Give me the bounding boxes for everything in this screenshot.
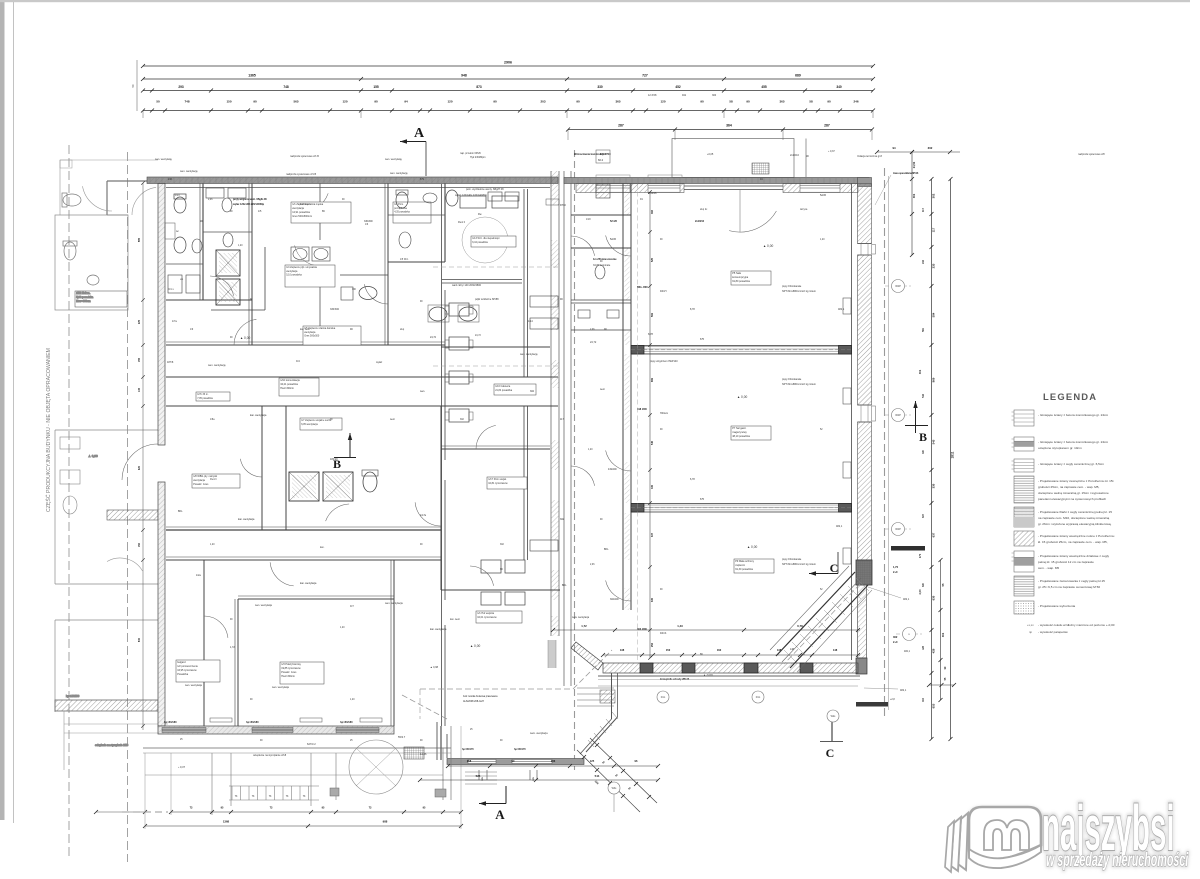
svg-text:180/20: 180/20 [330,458,338,461]
partition companion lines [248,184,250,346]
top wall inner line [166,187,550,189]
svg-text:W3s: W3s [612,787,618,790]
svg-text:belgard: belgard [177,661,186,664]
svg-text:90: 90 [493,100,497,104]
top wall band left building [147,177,558,184]
cafeteria west wall double [441,184,443,726]
left bottom vertical connectors [144,753,146,829]
svg-text:hp=80/180: hp=80/180 [340,720,353,724]
svg-text:żwir. kostka brukowa prasowana: żwir. kostka brukowa prasowana [463,695,498,698]
right wall window sill bumps [872,245,876,255]
svg-text:1/17a: 1/17a [420,514,427,517]
svg-text:830: 830 [138,637,141,642]
top dimension chain [143,65,873,67]
dining tables [449,303,469,316]
hall beam 2 [631,504,852,513]
svg-text:1,72: 1,72 [581,624,587,628]
row3 labels [176,660,220,682]
svg-text:365: 365 [779,100,784,104]
wc room 390-445 fixtures [396,192,408,208]
vestibule steps south [577,687,614,689]
svg-text:52 /26: 52 /26 [610,220,618,223]
svg-text:330: 330 [651,484,654,489]
svg-text:pójki wzdłużne 6P/88: pójki wzdłużne 6P/88 [475,298,499,301]
svg-text:2,06: 2,06 [590,329,595,331]
svg-text:482,1: 482,1 [904,650,911,653]
svg-text:55/3.7: 55/3.7 [398,735,406,739]
svg-text:584: 584 [932,312,936,317]
dashed walkway outline [420,688,573,690]
svg-text:418 /200: 418 /200 [637,408,647,411]
svg-text:wen. wentylację: wen. wentylację [520,353,538,356]
svg-text:A: A [495,807,505,822]
fragment small window top [60,160,72,168]
svg-text:1,20: 1,20 [238,245,243,247]
svg-text:gr. 26cm i wyłożone wyprawą e: gr. 26cm i wyłożone wyprawą elewacyjną k… [1038,522,1112,526]
svg-text:w sprzedaży nieruchomości: w sprzedaży nieruchomości [1046,850,1189,871]
svg-text:1/8a: 1/8a [210,419,215,421]
right wall window gaps [858,243,872,245]
fragment terrace lines [64,723,168,725]
fragment wc room outline [55,215,128,310]
svg-text:24,72: 24,72 [475,335,481,337]
SW diagonal steps band [586,717,618,752]
svg-text:302: 302 [932,193,936,198]
svg-text:1/13: 1/13 [175,195,180,197]
window sill marks top wall [596,175,630,178]
svg-text:620: 620 [138,465,141,470]
svg-text:330: 330 [597,85,603,89]
svg-text:428: 428 [932,648,936,653]
expansion joint dash line [574,150,576,770]
svg-text:1,20: 1,20 [588,449,593,451]
svg-text:▲ 0,00: ▲ 0,00 [240,336,250,340]
bottom left small chain [96,811,145,813]
dark text bar bottom right [856,702,888,707]
fragment sink [87,275,99,285]
wc toilet mid [359,287,377,300]
legend item band [1014,551,1034,572]
legend item dots [1014,601,1034,614]
svg-text:Posadz. Gres: Posadz. Gres [193,483,209,486]
fragment entry door arcs [83,186,113,211]
svg-text:24,52: 24,52 [912,161,916,168]
outside stair band west [107,510,158,520]
svg-text:302: 302 [530,390,535,393]
row2 toilet [363,472,377,492]
svg-text:2,06: 2,06 [208,199,213,201]
legend item hfine [1014,476,1034,503]
svg-text:1/7 Zaplecze socjalne suche: 1/7 Zaplecze socjalne suche [301,419,332,422]
svg-text:P9 Mała ochrony: P9 Mała ochrony [735,560,755,563]
svg-text:1/12 blok m.: 1/12 blok m. [76,291,90,295]
svg-text:162: 162 [717,648,722,652]
short chain y685 [929,684,954,686]
svg-text:▲ 0,00: ▲ 0,00 [88,454,98,458]
svg-text:- Istniejące ściany z cegły ce: - Istniejące ściany z cegły ceramicznej … [1038,462,1104,466]
row2 partitions [261,406,263,530]
east wing door arcs [476,425,496,449]
svg-text:302: 302 [928,146,933,150]
svg-text:330/300: 330/300 [364,220,373,223]
svg-text:627/3.2: 627/3.2 [307,742,316,746]
svg-text:D1n: D1n [661,696,666,699]
svg-text:D1n: D1n [756,696,761,699]
svg-text:ocieplenie na styropianie 2/18: ocieplenie na styropianie 2/18 [95,744,129,747]
svg-text:60.2: 60.2 [598,158,604,162]
svg-text:NPTi 8mx880mm/szt kg mitem: NPTi 8mx880mm/szt kg mitem [782,290,816,293]
svg-text:689: 689 [795,74,801,78]
svg-text:90: 90 [746,100,750,104]
bottom wall band with windows [158,726,394,734]
svg-text:H40em: H40em [660,412,668,415]
radiator marks hall right wall [843,298,851,314]
fragment mid fixtures [60,437,80,449]
svg-text:wen. wentylację: wen. wentylację [155,158,173,161]
row2 mid label [300,418,342,430]
svg-text:24,72: 24,72 [430,336,437,339]
svg-text:1811: 1811 [951,451,955,458]
terrace step ticks row [231,786,233,800]
beam dashed centrelines [631,349,851,351]
svg-text:ALS/2008 208-GLH: ALS/2008 208-GLH [463,700,484,703]
east wall band of left building (to expansion joint) [550,171,552,636]
svg-text:grubości 25cm, na zaprawie cem: grubości 25cm, na zaprawie cem. - wap. M… [1038,485,1100,489]
bottom chain y630 [553,629,860,631]
svg-text:wentylacja: wentylacja [193,479,205,482]
svg-text:655: 655 [932,703,936,708]
svg-text:525: 525 [651,257,654,262]
leader labels 482,1 [868,587,901,598]
svg-text:12 /158: 12 /158 [648,94,657,97]
svg-text:233: 233 [551,759,556,763]
svg-text:452: 452 [675,85,681,89]
svg-text:24,72: 24,72 [590,341,597,344]
svg-text:DKA: DKA [600,152,606,156]
svg-text:117: 117 [560,418,564,421]
svg-text:- Istniejące ściany z betonu k: - Istniejące ściany z betonu komórkowego… [1038,413,1109,417]
svg-text:21,84 posadzka: 21,84 posadzka [495,389,513,392]
svg-text:porządkowe: porządkowe [394,207,408,210]
row3 door arcs [204,616,228,638]
ramp dashed centre [784,584,860,664]
row1 label box 2 [393,202,431,223]
svg-text:6,78: 6,78 [797,624,803,628]
hall beam 1 [631,346,852,355]
svg-text:90: 90 [576,100,580,104]
svg-text:kan. went: kan. went [450,618,460,621]
svg-text:2x10/16: 2x10/16 [790,154,800,157]
east rooms labels [494,384,536,395]
svg-text:52/26: 52/26 [820,194,827,197]
svg-text:- Projektowane zamurowania z c: - Projektowane zamurowania z cegły pełne… [1038,579,1105,583]
svg-text:▵ 0,37: ▵ 0,37 [828,150,835,153]
diagonal ramp SE [770,566,872,672]
svg-text:879: 879 [420,178,425,181]
crosshatch grille block [752,163,769,174]
row1 toilets [174,197,186,213]
mid bottom chains [448,765,658,767]
east wing bottom wall [447,759,584,765]
svg-text:155: 155 [138,357,141,362]
svg-text:1m 2Pomieszczenie: 1m 2Pomieszczenie [593,258,617,261]
svg-text:252: 252 [651,642,654,647]
svg-text:pręty Fibrokanale: pręty Fibrokanale [782,558,802,561]
svg-text:150: 150 [226,100,231,104]
left vertical dim chain [142,183,144,730]
corridor partitions lower [571,299,631,301]
dashed access lines [433,266,560,268]
svg-text:B: B [919,430,927,444]
west wall [158,184,165,446]
svg-text:287: 287 [618,124,624,128]
svg-text:W2s: W2s [831,715,837,718]
svg-text:10,81 tymczasow: 10,81 tymczasow [488,482,508,485]
hall corridor east wall [622,184,624,611]
corridor door arcs [606,235,631,256]
corridor walls [166,376,558,378]
svg-text:ocieplone styropianem gr. 10cm: ocieplone styropianem gr. 10cm [1038,446,1082,450]
svg-text:- Projektowane ściany wewnętrz: - Projektowane ściany wewnętrzne działow… [1038,554,1109,558]
svg-text:302 /200: 302 /200 [637,628,647,631]
svg-text:300: 300 [712,94,717,97]
svg-text:D41H: D41H [660,290,667,293]
cafeteria east wall double x524 [523,189,525,377]
svg-text:1/3 Pokój biurowy: 1/3 Pokój biurowy [281,663,301,666]
hall bottom wall hatched band [603,663,858,673]
svg-text:6,44 posadzka: 6,44 posadzka [472,241,488,244]
NW diagonal wall to west [571,642,603,670]
svg-text:120: 120 [660,100,665,104]
row2 shower squares pair [289,472,319,501]
legend item zig [1014,507,1034,527]
svg-text:wen. wentylacja: wen. wentylacja [185,684,203,687]
legend item diag [1014,531,1034,546]
svg-text:went: went [390,418,395,421]
svg-text:- Projektowane filarki z cegły: - Projektowane filarki z cegły ceramiczn… [1038,510,1112,514]
left terrace outline [143,747,451,749]
svg-text:wen. wentylację: wen. wentylację [390,172,408,175]
svg-text:pręty Fibrokanale: pręty Fibrokanale [782,378,802,381]
svg-text:5,06 posadzka: 5,06 posadzka [76,295,93,299]
right benches [530,296,558,307]
SE end block [856,658,867,674]
svg-text:145: 145 [138,387,141,392]
svg-text:90: 90 [374,100,378,104]
svg-text:- wysokość parapetów: - wysokość parapetów [1038,630,1069,634]
svg-text:34,87 terminale: 34,87 terminale [593,264,611,267]
svg-text:873: 873 [476,85,482,89]
svg-text:203: 203 [540,100,545,104]
svg-text:637: 637 [932,532,936,537]
svg-text:wen. wentylacja: wen. wentylacja [255,604,273,607]
svg-text:302: 302 [560,518,565,521]
label boxes 1/4 1/5 [285,265,335,287]
svg-text:BKL: BKL [604,548,609,551]
svg-text:1/2 pomieszczenie: 1/2 pomieszczenie [177,665,198,668]
svg-text:8,78: 8,78 [690,308,695,311]
svg-text:7,05 posadzka: 7,05 posadzka [197,397,213,400]
hall top wall hatch band [576,184,684,193]
svg-text:kan. wentylacja: kan. wentylacja [300,582,317,585]
svg-text:pręty wzgórzem HEP140: pręty wzgórzem HEP140 [650,360,678,363]
svg-text:+x,xx: +x,xx [1027,623,1034,627]
walkway below bottom wall [598,685,858,687]
svg-text:302/200: 302/200 [610,598,619,601]
canopy rectangle above entrance [672,139,794,178]
svg-text:138: 138 [777,648,782,652]
svg-text:DT10: DT10 [560,204,567,207]
svg-text:748: 748 [283,85,289,89]
svg-text:kl. 15 grubości 25cm, na zapra: kl. 15 grubości 25cm, na zaprawie cem. -… [1038,540,1108,544]
watermark logo subtitle [1046,850,1189,871]
svg-text:293: 293 [178,85,184,89]
svg-text:- Projektowane ściany zewnętrz: - Projektowane ściany zewnętrzne z Porot… [1038,479,1114,483]
bottom entrance steps diagonal dim chains [590,738,657,803]
svg-text:1/2a: 1/2a [196,574,201,577]
inner frame line [13,2,15,823]
svg-text:90: 90 [700,100,704,104]
svg-text:Dw1 h: Dw1 h [210,478,217,481]
svg-text:hp=80/170: hp=80/170 [514,748,526,751]
svg-text:187/8: 187/8 [167,361,174,364]
svg-text:wentylacja: wentylacja [286,270,298,273]
fragment bottom wall band [55,700,158,711]
svg-text:34,21 posadzka: 34,21 posadzka [280,383,298,386]
svg-text:W2P: W2P [895,284,901,288]
DKA box [596,150,610,163]
svg-text:konsumpcyjna: konsumpcyjna [732,276,749,279]
svg-text:340: 340 [836,85,842,89]
svg-text:wen.: wen. [420,390,425,393]
row1 sinks pair [429,307,447,321]
svg-text:cem. - wap. M5: cem. - wap. M5 [1038,566,1059,570]
svg-text:NPTi 8mx880mm/szt kg mitem: NPTi 8mx880mm/szt kg mitem [782,563,816,566]
svg-text:330: 330 [932,483,936,488]
svg-text:Dr1 s: Dr1 s [168,288,175,291]
axis bubble circles right [885,285,911,287]
svg-text:kan. wentylacja: kan. wentylacja [238,518,255,521]
top wall ticks texture [149,177,151,184]
svg-text:12,91 posadzka: 12,91 posadzka [292,211,310,214]
left bottom chains [171,811,461,813]
wc sink row [488,192,502,201]
legend item ladder [1014,410,1034,426]
gray vertical band left of walk [548,640,556,668]
svg-text:wen. wentylację: wen. wentylację [208,364,226,367]
svg-text:- wysokość cokołu wzdłużny: - wysokość cokołu wzdłużny mierzone od p… [1038,623,1115,627]
svg-text:CZĘŚĆ PRODUKCYJNA BUDYNKU - NI: CZĘŚĆ PRODUKCYJNA BUDYNKU - NIE OBJĘTA O… [44,348,52,512]
svg-text:LEGENDA: LEGENDA [1043,391,1097,402]
svg-text:330/300: 330/300 [330,308,340,311]
room 450-520 top fixtures [492,196,518,208]
svg-text:90: 90 [253,100,257,104]
svg-text:365: 365 [615,100,620,104]
svg-text:8,78: 8,78 [648,333,653,336]
svg-text:630: 630 [932,595,936,600]
svg-text:pom. wydzielone wenty. 6Bg/H 0: pom. wydzielone wenty. 6Bg/H 08 [466,188,504,191]
svg-text:2,06: 2,06 [590,564,595,566]
svg-text:hp=140/100: hp=140/100 [66,695,80,698]
svg-text:727: 727 [642,74,648,78]
right top corner ticks [877,151,960,153]
svg-text:1/7b 33 m.: 1/7b 33 m. [197,393,209,396]
secondary top dimension chain [568,129,872,131]
row2 door arcs [240,459,262,477]
svg-text:A: A [414,126,425,141]
svg-text:1/13 W.C. dla niepełnospr.: 1/13 W.C. dla niepełnospr. [472,237,500,240]
svg-text:419/200: 419/200 [608,468,617,471]
right lower chain [940,560,942,700]
svg-text:383: 383 [651,209,654,214]
vestibule partitions top [571,214,631,216]
hall interior dim chain [649,192,651,658]
hall room label 3 [734,559,774,573]
svg-text:170: 170 [918,553,922,558]
right wall inner face [851,184,853,661]
svg-text:302: 302 [893,635,898,639]
svg-text:Posadz. Gres: Posadz. Gres [281,671,297,674]
svg-text:▵ 0,37: ▵ 0,37 [178,765,186,769]
svg-text:150: 150 [138,542,141,547]
legend item hfine [1014,576,1034,596]
svg-text:Izolacja termiczna gr.8: Izolacja termiczna gr.8 [857,155,882,158]
svg-text:nadproża systemowe 2/8: nadproża systemowe 2/8 [1078,153,1105,156]
svg-text:1/3 Pom.: 1/3 Pom. [394,203,404,206]
bubble near 660 [657,691,669,703]
svg-text:- Projektowane ściany wewnętrz: - Projektowane ściany wewnętrzne nośne z… [1038,534,1115,538]
fragment top-left entry walls [107,180,158,182]
svg-text:19,85 tymczasow: 19,85 tymczasow [281,667,301,670]
svg-text:np: np [1029,630,1033,634]
page left edge band [0,0,5,820]
svg-text:BKL: BKL [562,584,567,587]
svg-text:1/17 Pom.socjal.: 1/17 Pom.socjal. [488,478,507,481]
svg-text:BKL: BKL [178,510,183,513]
east wing corner verticals [436,722,438,760]
fragment mid room [55,429,158,431]
svg-text:545: 545 [651,440,654,445]
fragment label box [75,291,127,307]
svg-text:W2P: W2P [895,413,901,417]
svg-text:pełnej kl. 15 grubości 12 cm: pełnej kl. 15 grubości 12 cm na zaprawie [1038,560,1094,564]
fragment bottom room [55,619,158,621]
svg-text:1/14: 1/14 [528,320,533,323]
svg-text:637: 637 [651,532,654,537]
svg-text:P7 Sal gastr.: P7 Sal gastr. [732,427,746,430]
svg-text:58: 58 [809,100,813,104]
svg-text:10,01 tymczasow: 10,01 tymczasow [477,616,497,619]
svg-text:869: 869 [651,377,654,382]
svg-text:P5 Sala: P5 Sala [732,272,741,275]
svg-text:50: 50 [156,100,160,104]
svg-text:869: 869 [932,377,936,382]
hall entrance double line [684,185,783,187]
svg-text:1,20: 1,20 [210,544,215,546]
svg-text:1/5 W.C.: 1/5 W.C. [400,259,409,261]
hall room label 2 [731,426,771,440]
row1 shower squares [216,250,240,276]
svg-text:um: um [180,279,183,281]
svg-text:941: 941 [682,94,687,97]
svg-text:225: 225 [138,319,141,324]
svg-text:wentylacja: wentylacja [304,331,316,334]
svg-text:Hsw=300cm: Hsw=300cm [280,387,294,390]
west wall door opening arc [122,444,158,480]
svg-text:1/10 komunikacja: 1/10 komunikacja [280,379,300,382]
svg-text:58: 58 [729,100,733,104]
svg-text:94: 94 [404,100,408,104]
